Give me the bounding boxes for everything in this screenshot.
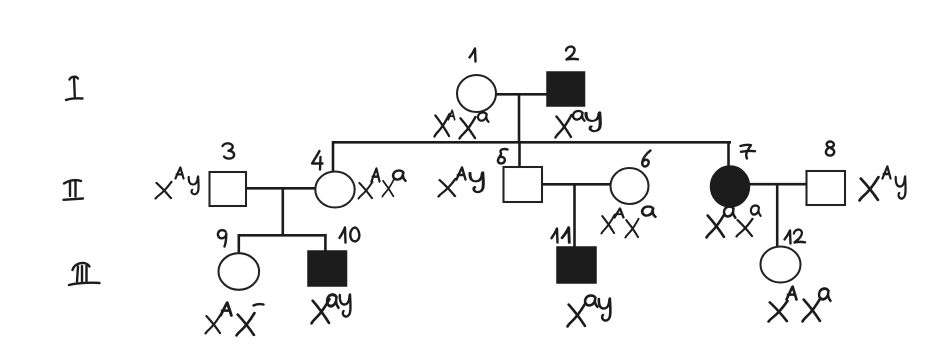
wire: descent from couple 5-6 to III-11 xyxy=(573,184,576,247)
genotype X^A X^a below 6 xyxy=(601,215,614,234)
label 3 xyxy=(223,143,235,158)
label 7 xyxy=(741,145,756,159)
individual 10: filled square (affected male) xyxy=(308,251,347,286)
label 5 xyxy=(498,149,508,163)
genotype X^A X^a below 12 xyxy=(769,301,788,322)
individual 3: open square (male) xyxy=(210,172,247,206)
label 11 xyxy=(552,229,558,243)
wire: sibship line generation II xyxy=(333,141,731,144)
label 6 xyxy=(642,151,650,167)
genotype X^a y below 10 xyxy=(312,299,330,323)
genotype X^A y left of 3 xyxy=(156,182,172,199)
label 12 xyxy=(785,231,791,244)
individual 1: circle (female) xyxy=(457,75,496,112)
label 10 xyxy=(340,228,346,243)
label 1 xyxy=(470,49,476,62)
genotype X^a X^a below 7 xyxy=(707,214,725,237)
label 8 xyxy=(826,142,834,156)
wire: descent from couple 7-8 to III-12 xyxy=(776,184,779,247)
genotype X^A X^a right of 4 xyxy=(358,182,372,199)
genotype X^A X^a below 1 xyxy=(434,114,449,137)
wire: drop to II-4 xyxy=(332,141,335,172)
wire: sibship line III (children 9,10) xyxy=(238,234,327,237)
individual 7: filled circle (affected female) xyxy=(711,166,750,207)
roman numeral III (generation III) xyxy=(69,263,100,285)
wire: descent from couple I down to sibship II xyxy=(518,94,521,143)
wire: drop to III-10 xyxy=(324,234,327,251)
wire: couple line II-3 to II-4 xyxy=(246,187,316,190)
wire: drop to III-9 xyxy=(238,234,241,254)
roman numeral I (generation I) xyxy=(66,77,83,100)
wire: descent from couple 3-4 down to sibship III xyxy=(281,188,284,236)
label 4 xyxy=(312,151,323,170)
genotype X^A y left of 5 xyxy=(439,179,456,197)
individual 11: filled square (affected male) xyxy=(557,247,596,283)
wire: couple line II-5 to II-6 xyxy=(542,183,611,186)
individual 8: open square (male) xyxy=(807,171,846,205)
genotype X^A X^- below 9 xyxy=(205,315,220,334)
genotype X^a y below 11 xyxy=(568,303,586,326)
individual 4: circle (female) xyxy=(315,172,354,208)
wire: couple line I-1 to I-2 xyxy=(495,93,547,96)
individual 12: circle (female) xyxy=(761,247,801,283)
individual 2: filled square (affected male) xyxy=(547,72,585,106)
individual 5: open square (male) xyxy=(504,167,543,202)
individual 9: circle (female) xyxy=(219,253,260,290)
wire: couple line II-7 to II-8 xyxy=(749,183,807,186)
wire: drop to II-5 xyxy=(518,142,521,167)
wire: drop to II-7 xyxy=(727,141,730,167)
label 2 xyxy=(566,47,578,60)
genotype X^a y below 2 xyxy=(556,115,572,138)
individual 6: circle (female) xyxy=(611,168,649,204)
genotype X^A y right of 8 xyxy=(860,177,879,200)
label 9 xyxy=(218,230,226,246)
roman numeral II (generation II) xyxy=(64,180,84,200)
